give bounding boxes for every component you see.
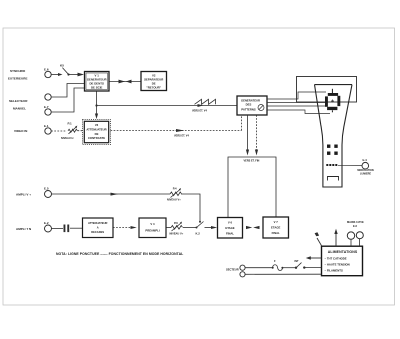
svg-text:AMPLI T N: AMPLI T N <box>16 227 31 231</box>
svg-text:SELECTEUR: SELECTEUR <box>9 99 28 103</box>
svg-text:NIVEAU V+: NIVEAU V+ <box>167 198 181 202</box>
svg-text:P.6: P.6 <box>174 221 178 225</box>
svg-text:V 7: V 7 <box>274 220 279 224</box>
svg-text:DES: DES <box>246 103 252 107</box>
svg-text:NIVEAU H: NIVEAU H <box>61 136 74 140</box>
svg-text:DE: DE <box>95 132 99 136</box>
svg-text:VERS ET. V4: VERS ET. V4 <box>192 110 207 113</box>
svg-text:LUMIERE: LUMIERE <box>360 172 371 175</box>
svg-text:VERS ET. FIN: VERS ET. FIN <box>244 160 260 163</box>
svg-text:ATTENUATEUR: ATTENUATEUR <box>86 127 106 131</box>
svg-text:V 4: V 4 <box>150 222 155 226</box>
svg-text:VERS ET. V4: VERS ET. V4 <box>174 135 189 138</box>
svg-text:"RETOUR": "RETOUR" <box>146 85 161 89</box>
svg-text:E.4: E.4 <box>363 158 368 162</box>
svg-text:– HAUTE TENSION: – HAUTE TENSION <box>325 263 350 267</box>
svg-text:FINAL: FINAL <box>272 231 280 235</box>
svg-text:E.2: E.2 <box>44 221 49 225</box>
svg-text:MAINS 117VE: MAINS 117VE <box>347 220 364 224</box>
svg-text:E.6: E.6 <box>353 224 357 228</box>
svg-text:– THT CATHODE: – THT CATHODE <box>325 256 347 260</box>
svg-text:ETAGE: ETAGE <box>271 226 280 230</box>
svg-text:GENERATEUR: GENERATEUR <box>241 98 260 102</box>
svg-text:E.6: E.6 <box>44 68 49 72</box>
svg-text:PATTERNS: PATTERNS <box>241 107 256 111</box>
svg-text:P.1: P.1 <box>68 121 72 125</box>
svg-text:INT: INT <box>295 260 300 263</box>
svg-text:ETAGE: ETAGE <box>225 226 234 230</box>
svg-text:P.4: P.4 <box>173 187 177 191</box>
svg-text:E.5: E.5 <box>44 187 49 191</box>
svg-text:V3: V3 <box>95 123 99 127</box>
svg-text:NIVEAU V+: NIVEAU V+ <box>170 231 184 235</box>
svg-text:DECADES: DECADES <box>91 230 104 234</box>
svg-text:AMPLI V +: AMPLI V + <box>16 193 31 197</box>
svg-text:EXTERIEURE: EXTERIEURE <box>8 77 27 81</box>
svg-text:K.2: K.2 <box>196 232 201 236</box>
svg-text:VIDEO IN: VIDEO IN <box>14 129 27 133</box>
svg-text:SYNCHRO: SYNCHRO <box>10 69 26 73</box>
svg-text:MODULATION: MODULATION <box>357 169 374 172</box>
svg-text:NOTA: LIGNE PONCTUEE ------ FO: NOTA: LIGNE PONCTUEE ------ FONCTIONNEME… <box>56 252 183 256</box>
svg-text:ATTENUATEUR: ATTENUATEUR <box>88 221 108 225</box>
svg-text:V 6: V 6 <box>228 221 233 225</box>
svg-text:E.7: E.7 <box>44 105 49 109</box>
svg-text:F: F <box>274 259 276 263</box>
svg-text:FINAL: FINAL <box>226 231 234 235</box>
svg-text:SECTEUR: SECTEUR <box>226 268 239 272</box>
svg-text:DE SCIE: DE SCIE <box>91 86 102 90</box>
svg-text:ALIMENTATIONS: ALIMENTATIONS <box>328 250 358 254</box>
svg-text:E.1: E.1 <box>44 124 49 128</box>
svg-text:MANUEL: MANUEL <box>13 107 26 111</box>
svg-text:PREAMPLI: PREAMPLI <box>145 229 159 233</box>
svg-text:CONTRASTE: CONTRASTE <box>88 136 105 140</box>
svg-text:– FILAMENTS: – FILAMENTS <box>325 269 343 273</box>
svg-text:K5: K5 <box>60 63 64 67</box>
svg-text:A: A <box>97 225 99 229</box>
